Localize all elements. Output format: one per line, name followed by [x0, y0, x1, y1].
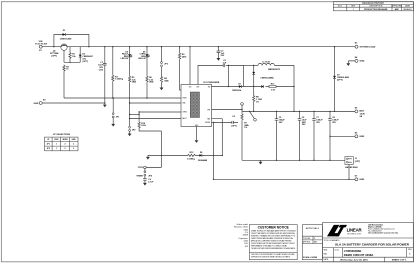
- svg-text:Capacitors:: Capacitors:: [238, 237, 248, 240]
- wire SW line: [212, 86, 244, 88]
- wire JP2 tee: [130, 114, 140, 116]
- svg-text:ABC: ABC: [395, 8, 400, 11]
- jumper JP1: [112, 97, 120, 124]
- customer notice box: [249, 225, 297, 260]
- inductor L1: [243, 61, 294, 65]
- svg-text:SHDN: SHDN: [62, 139, 68, 141]
- svg-text:TIMER: TIMER: [136, 175, 143, 177]
- diode D7: [333, 47, 349, 112]
- svg-text:1: 1: [56, 144, 57, 146]
- svg-text:BAT: BAT: [360, 109, 365, 112]
- capacitor C3: [217, 47, 225, 58]
- terminal E5 BAT: [355, 110, 358, 113]
- svg-text:25V: 25V: [332, 122, 336, 124]
- resistor R16: [138, 111, 161, 131]
- svg-text:VFB: VFB: [207, 109, 210, 111]
- LED D6: [138, 47, 150, 76]
- svg-text:MBRS340T3: MBRS340T3: [268, 68, 281, 71]
- svg-text:RUN: RUN: [54, 139, 59, 141]
- wire J1 to bottom bus: [348, 165, 350, 180]
- svg-text:Fax: (408)434-0507: Fax: (408)434-0507: [368, 230, 382, 232]
- resistor R3: [112, 47, 124, 98]
- wire loop left: [242, 65, 244, 86]
- svg-text:JP2: JP2: [47, 148, 50, 150]
- jumper JP3 SHDN divider: [161, 47, 169, 76]
- svg-text:PCB DES.: PCB DES.: [303, 238, 311, 240]
- svg-text:GND: GND: [359, 179, 364, 181]
- svg-text:CMSH3-40MA: CMSH3-40MA: [260, 76, 274, 79]
- node dots on VIN bus: [53, 46, 335, 47]
- svg-text:CMSH3-40M: CMSH3-40M: [60, 38, 72, 41]
- svg-text:(OPT): (OPT): [337, 80, 343, 82]
- jumper JP2: [129, 103, 137, 134]
- svg-text:06-30-10: 06-30-10: [403, 9, 412, 11]
- wire boost to SW: [228, 65, 230, 86]
- logo LTC emblem: [327, 225, 362, 237]
- svg-text:SHDN: SHDN: [182, 98, 186, 100]
- capacitor C1: [98, 47, 106, 103]
- wire U1 GND pin: [196, 127, 198, 141]
- resistor R12: [187, 152, 196, 161]
- resistor R7: [241, 111, 250, 160]
- ground: [128, 134, 132, 137]
- svg-text:50V: 50V: [221, 55, 225, 57]
- capacitor C7: [312, 111, 323, 160]
- wire SENSE bottom edge: [243, 86, 294, 88]
- ground: [103, 105, 107, 108]
- diode D8: [198, 152, 208, 162]
- svg-text:14.4V: 14.4V: [360, 112, 366, 115]
- ground: [160, 88, 164, 91]
- test point TP2: [249, 111, 256, 121]
- svg-text:1: 1: [56, 148, 57, 150]
- revision history table: [333, 2, 413, 11]
- capacitor C5: [275, 111, 286, 160]
- terminal E1 VIN: [39, 45, 42, 48]
- diode D4 vertical: [252, 65, 280, 88]
- svg-text:SLA 2A BATTERY CHARGER FOR SOL: SLA 2A BATTERY CHARGER FOR SOLAR POWER: [335, 243, 410, 247]
- ground: [217, 58, 221, 61]
- svg-text:LED-LM: LED-LM: [138, 58, 146, 60]
- svg-text:APPROVED: APPROVED: [392, 5, 403, 8]
- ground: [143, 183, 147, 186]
- svg-text:DATE:: DATE:: [324, 258, 330, 261]
- ground: [195, 140, 199, 143]
- wire line B: [42, 103, 105, 105]
- connector J1: [345, 157, 361, 169]
- svg-text:17.5V TO 40V: 17.5V TO 40V: [35, 43, 48, 46]
- diode D3: [232, 83, 242, 92]
- svg-text:JP1: JP1: [47, 144, 50, 146]
- wire FB line: [212, 109, 243, 111]
- wire base tie: [64, 61, 80, 63]
- terminal E3 SYSTEM LOAD: [355, 45, 358, 48]
- svg-text:25V: 25V: [316, 122, 320, 124]
- svg-text:1/16W: 1/16W: [243, 235, 249, 237]
- ground: [146, 155, 150, 159]
- terminal E4 GND: [355, 59, 358, 62]
- wire BAT bus C: [242, 110, 355, 112]
- svg-text:U1 LT3652HMSE: U1 LT3652HMSE: [203, 82, 220, 84]
- wire BOOST line: [198, 65, 243, 84]
- svg-text:CNTL: CNTL: [138, 167, 144, 169]
- resistor R9: [179, 47, 188, 90]
- svg-text:JP1 SELECTIONS: JP1 SELECTIONS: [53, 134, 71, 136]
- jumper JP4 TIMER: [136, 169, 152, 178]
- capacitor C2: [223, 60, 227, 67]
- wire VIN pin: [189, 47, 191, 85]
- svg-text:CMPD414: CMPD414: [232, 89, 242, 92]
- svg-text:VIN: VIN: [189, 86, 192, 88]
- diode D1: [60, 30, 72, 40]
- wire TMR riser: [146, 131, 161, 167]
- capacitor C6: [298, 111, 308, 160]
- wire BAT drop: [293, 65, 295, 111]
- svg-text:R13: R13: [271, 84, 275, 86]
- JP1 selections table: [45, 134, 79, 151]
- svg-text:1%: 1%: [256, 101, 259, 103]
- wire bottom bus: [214, 178, 355, 180]
- resistor R4: [160, 76, 169, 88]
- terminal E7 GND: [355, 178, 358, 181]
- capacitor C9: [143, 176, 154, 184]
- test point TMR: [138, 166, 146, 169]
- zener D2: [79, 47, 94, 63]
- resistor R5: [129, 76, 138, 103]
- svg-text:REVISION HISTORY: REVISION HISTORY: [362, 3, 384, 5]
- svg-text:Unless noted:: Unless noted:: [236, 223, 248, 226]
- wire BAT net down: [213, 122, 215, 179]
- wire D1 bypass loop: [54, 35, 89, 47]
- wire R12/D8 line: [148, 154, 222, 156]
- svg-text:SYSTEM LOAD: SYSTEM LOAD: [360, 46, 376, 49]
- ground: [259, 160, 263, 164]
- svg-text:Resistors: Ohms: Resistors: Ohms: [234, 226, 248, 229]
- notes block: [234, 223, 249, 248]
- svg-text:GND: GND: [72, 139, 77, 141]
- wire line B2: [130, 102, 181, 104]
- svg-text:2: 2: [65, 148, 66, 150]
- svg-text:SENSE: SENSE: [205, 122, 210, 124]
- resistor R2: [63, 65, 70, 98]
- svg-text:L1 15uH: L1 15uH: [262, 61, 270, 63]
- wire line A: [64, 97, 181, 99]
- svg-text:DATE: DATE: [405, 5, 411, 8]
- svg-text:DEMO CIRCUIT 1608A: DEMO CIRCUIT 1608A: [344, 253, 374, 257]
- resistor R13 sense: [269, 84, 276, 92]
- wire BAT pin line: [212, 121, 239, 123]
- wire Q1 base: [63, 50, 65, 62]
- capacitor C8: [328, 111, 339, 160]
- svg-text:IC No.: IC No.: [335, 249, 340, 251]
- svg-text:1.00Meg: 1.00Meg: [187, 159, 196, 161]
- svg-text:4.7nF: 4.7nF: [148, 181, 154, 184]
- capacitor C4: [231, 115, 237, 128]
- svg-text:(OPT): (OPT): [231, 125, 237, 127]
- test point TP1: [241, 103, 244, 112]
- svg-text:APPROVALS: APPROVALS: [306, 227, 320, 230]
- wire SENSE pin line: [212, 119, 223, 156]
- wire gnd bus: [242, 159, 345, 161]
- svg-text:GND: GND: [360, 61, 365, 63]
- resistor R1: [69, 47, 77, 63]
- svg-text:(OPT): (OPT): [51, 55, 57, 57]
- title block: [322, 223, 413, 262]
- svg-text:ECO: ECO: [338, 6, 343, 8]
- svg-text:SDM4448: SDM4448: [198, 159, 208, 162]
- wire E6 tee: [330, 135, 355, 137]
- resistor R6: [146, 76, 155, 98]
- svg-text:SCALE = NONE: SCALE = NONE: [303, 256, 318, 259]
- svg-text:D3: D3: [238, 83, 240, 85]
- ground: [346, 63, 350, 66]
- svg-text:(OPT): (OPT): [355, 161, 361, 163]
- svg-text:SHEET 1 OF 1: SHEET 1 OF 1: [392, 260, 407, 262]
- LED D5: [121, 47, 133, 76]
- resistor R8: [253, 87, 262, 112]
- terminal E6 GND: [355, 135, 358, 138]
- address block: [368, 223, 398, 234]
- svg-text:TITLE: SCHEMATIC: TITLE: SCHEMATIC: [324, 239, 341, 242]
- svg-text:GND: GND: [34, 103, 39, 105]
- svg-text:TECHNOLOGY: TECHNOLOGY: [347, 234, 362, 236]
- svg-text:25V: 25V: [302, 124, 306, 126]
- wire to pin CHRG: [139, 111, 181, 113]
- diode D9: [261, 85, 264, 88]
- svg-text:BST: BST: [197, 86, 200, 88]
- ground: [111, 124, 115, 127]
- svg-text:2: 2: [65, 144, 66, 146]
- svg-text:3: 3: [73, 148, 74, 150]
- wire VIN bus: [42, 46, 356, 48]
- wire to pin FAULT: [130, 118, 181, 120]
- svg-text:1.00Meg: 1.00Meg: [115, 79, 124, 81]
- svg-text:Wednesday, June 30, 2010: Wednesday, June 30, 2010: [340, 260, 368, 262]
- svg-text:GND: GND: [359, 136, 364, 138]
- svg-text:DESCRIPTION: DESCRIPTION: [369, 6, 383, 8]
- terminal E2 GND: [39, 102, 42, 105]
- svg-text:PRODUCTION RELEASE: PRODUCTION RELEASE: [364, 8, 388, 11]
- approvals box: [302, 225, 322, 260]
- op IC U1 body: [181, 82, 220, 127]
- svg-text:CUSTOMER NOTICE: CUSTOMER NOTICE: [258, 226, 289, 230]
- svg-text:3: 3: [73, 144, 74, 146]
- svg-text:LINEAR: LINEAR: [347, 228, 363, 233]
- svg-text:25V: 25V: [279, 122, 283, 124]
- svg-text:(OPT): (OPT): [82, 61, 88, 63]
- svg-text:LED-LM: LED-LM: [121, 58, 129, 60]
- svg-text:1%: 1%: [244, 127, 247, 129]
- svg-text:BAT-BP-B500: BAT-BP-B500: [345, 166, 357, 169]
- transistor Q1: [50, 44, 67, 57]
